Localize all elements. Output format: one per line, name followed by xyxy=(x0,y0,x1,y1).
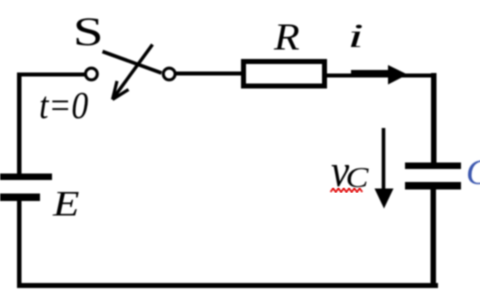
svg-text:t=0: t=0 xyxy=(39,84,88,126)
wire switch to resistor xyxy=(175,72,241,76)
wire left vertical lower xyxy=(17,201,22,288)
wire right vertical upper xyxy=(431,73,437,163)
switch S right terminal xyxy=(163,68,175,80)
switch S arm xyxy=(103,52,162,74)
capacitor C top plate xyxy=(405,163,461,170)
switch closing arrow xyxy=(113,45,153,100)
voltage arrow vC xyxy=(375,128,394,209)
switch S left terminal xyxy=(86,68,98,80)
battery E bottom plate xyxy=(0,194,40,202)
wire right vertical lower xyxy=(431,185,437,285)
svg-text:E: E xyxy=(52,184,79,224)
current arrow i xyxy=(351,65,408,85)
svg-text:S: S xyxy=(73,10,104,54)
wire left vertical upper xyxy=(17,73,22,175)
wire resistor to right corner xyxy=(327,74,437,78)
battery E top plate xyxy=(0,174,52,181)
wire top-left horizontal xyxy=(17,73,85,77)
capacitor C bottom plate xyxy=(405,182,461,190)
svg-text:i: i xyxy=(348,18,364,55)
red squiggle under vC xyxy=(331,188,363,192)
resistor R xyxy=(244,62,325,87)
svg-text:R: R xyxy=(273,15,300,58)
wire bottom rail xyxy=(17,283,438,288)
svg-text:C: C xyxy=(466,152,480,192)
